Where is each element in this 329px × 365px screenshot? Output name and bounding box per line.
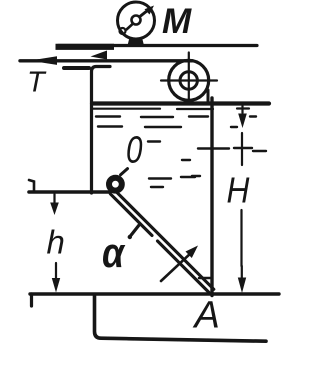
svg-text:α: α	[102, 230, 126, 276]
svg-text:M: M	[162, 2, 192, 41]
svg-text:T: T	[27, 67, 47, 99]
svg-text:0: 0	[126, 129, 143, 171]
svg-text:h: h	[47, 224, 65, 261]
svg-text:A: A	[193, 295, 220, 337]
svg-text:H: H	[227, 171, 250, 211]
